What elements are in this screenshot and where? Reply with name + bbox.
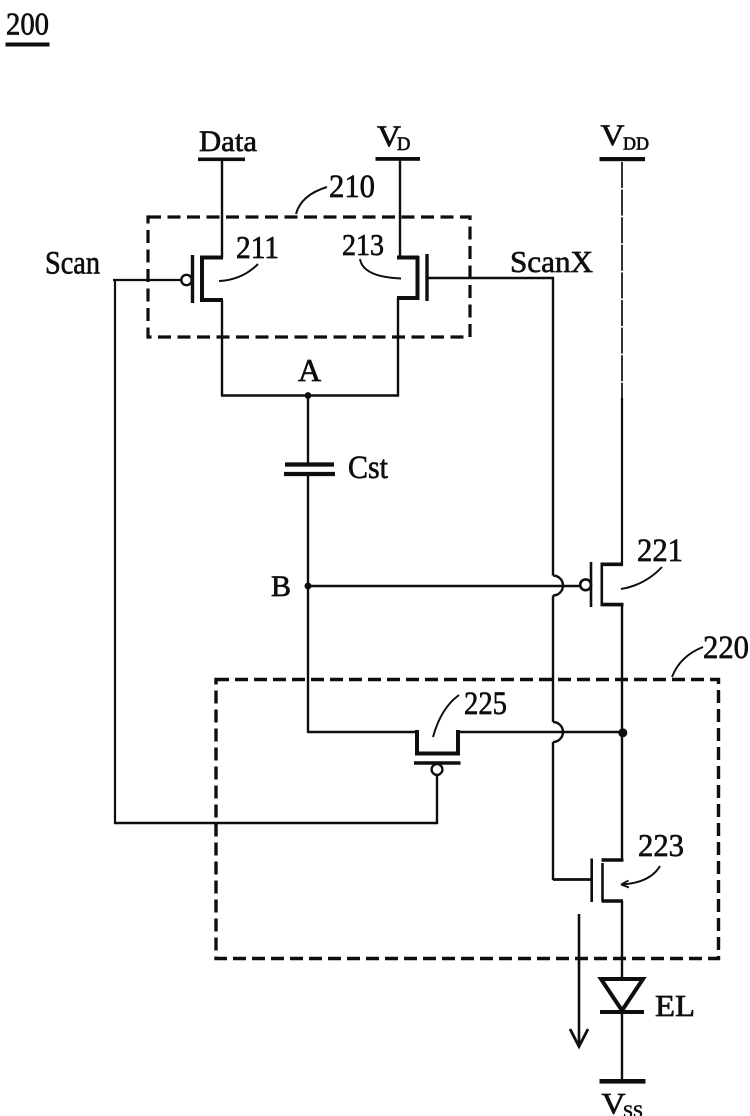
VSS label — [602, 1088, 644, 1116]
wire junction down to 223 — [621, 732, 623, 861]
transistor 211 — [181, 255, 223, 303]
node A horizontal wire — [221, 394, 399, 396]
transistor 213 — [397, 254, 427, 301]
svg-text:D: D — [397, 135, 410, 155]
wire Scan vertical down left side — [114, 279, 116, 824]
svg-text:SS: SS — [623, 1102, 643, 1116]
VD terminal label — [376, 120, 421, 161]
wire Scan bottom horizontal to 225 gate — [114, 822, 438, 825]
svg-text:ScanX: ScanX — [510, 244, 593, 279]
wire 221 drain down to junction — [621, 604, 623, 733]
svg-text:221: 221 — [637, 533, 683, 569]
wire 211 drain down to node A — [221, 300, 223, 397]
svg-text:DD: DD — [623, 134, 649, 154]
svg-text:225: 225 — [464, 686, 507, 722]
wire node B to 225 source — [308, 731, 418, 733]
svg-text:213: 213 — [342, 228, 384, 262]
capacitor Cst — [284, 465, 335, 475]
label 221 with leader — [621, 533, 683, 589]
wire Cst to node B — [307, 476, 309, 587]
svg-text:210: 210 — [329, 169, 375, 205]
svg-text:Data: Data — [199, 125, 257, 158]
label 225 with leader — [433, 686, 507, 737]
wire ScanX to 223 gate — [553, 878, 593, 881]
wire 223 source down to EL — [621, 901, 623, 978]
dashed block 220 — [216, 680, 719, 959]
svg-text:V: V — [601, 119, 625, 152]
wire EL to VSS — [621, 1013, 623, 1080]
figure number 200 — [6, 7, 50, 47]
wire VD vertical — [399, 160, 401, 258]
label 220 with leader — [672, 630, 749, 677]
wire node A to Cst — [307, 395, 309, 463]
node A junction dot — [305, 392, 312, 399]
label 211 with leader — [219, 229, 279, 281]
node B junction dot — [305, 583, 312, 590]
svg-text:Cst: Cst — [348, 450, 388, 486]
VDD terminal label — [600, 119, 650, 161]
wire 213 source down to node A — [397, 298, 399, 397]
wire ScanX horizontal from 213 gate — [428, 277, 554, 279]
svg-text:EL: EL — [655, 988, 695, 1023]
wire ScanX vertical with hops — [553, 277, 563, 880]
dashed block 210 — [148, 217, 470, 337]
transistor 225 — [414, 730, 461, 775]
svg-text:223: 223 — [638, 827, 684, 863]
wire Scan horizontal to 211 gate — [113, 279, 181, 281]
svg-text:211: 211 — [236, 229, 279, 265]
EL diode — [600, 979, 644, 1012]
Data terminal label — [198, 125, 257, 161]
svg-text:A: A — [298, 352, 321, 388]
label 223 with leader — [621, 827, 684, 888]
svg-text:B: B — [271, 570, 291, 603]
svg-text:220: 220 — [703, 630, 749, 666]
junction dot at 221 drain / 225 drain — [618, 728, 627, 737]
wire node B vertical down — [307, 586, 309, 733]
wire Data vertical — [221, 160, 223, 258]
svg-text:Scan: Scan — [45, 246, 100, 282]
label 210 with leader — [296, 169, 375, 214]
wire 225 gate stub — [436, 775, 438, 824]
wire VDD vertical — [621, 162, 623, 398]
transistor 223 — [592, 859, 624, 903]
VSS terminal bar — [600, 1079, 646, 1084]
current direction arrow — [570, 914, 588, 1047]
wire node B horizontal to 221 gate — [306, 585, 581, 587]
wire 225 drain to junction — [458, 731, 623, 733]
label 213 with leader — [342, 228, 401, 279]
svg-text:200: 200 — [6, 7, 49, 42]
transistor 221 — [580, 562, 623, 607]
